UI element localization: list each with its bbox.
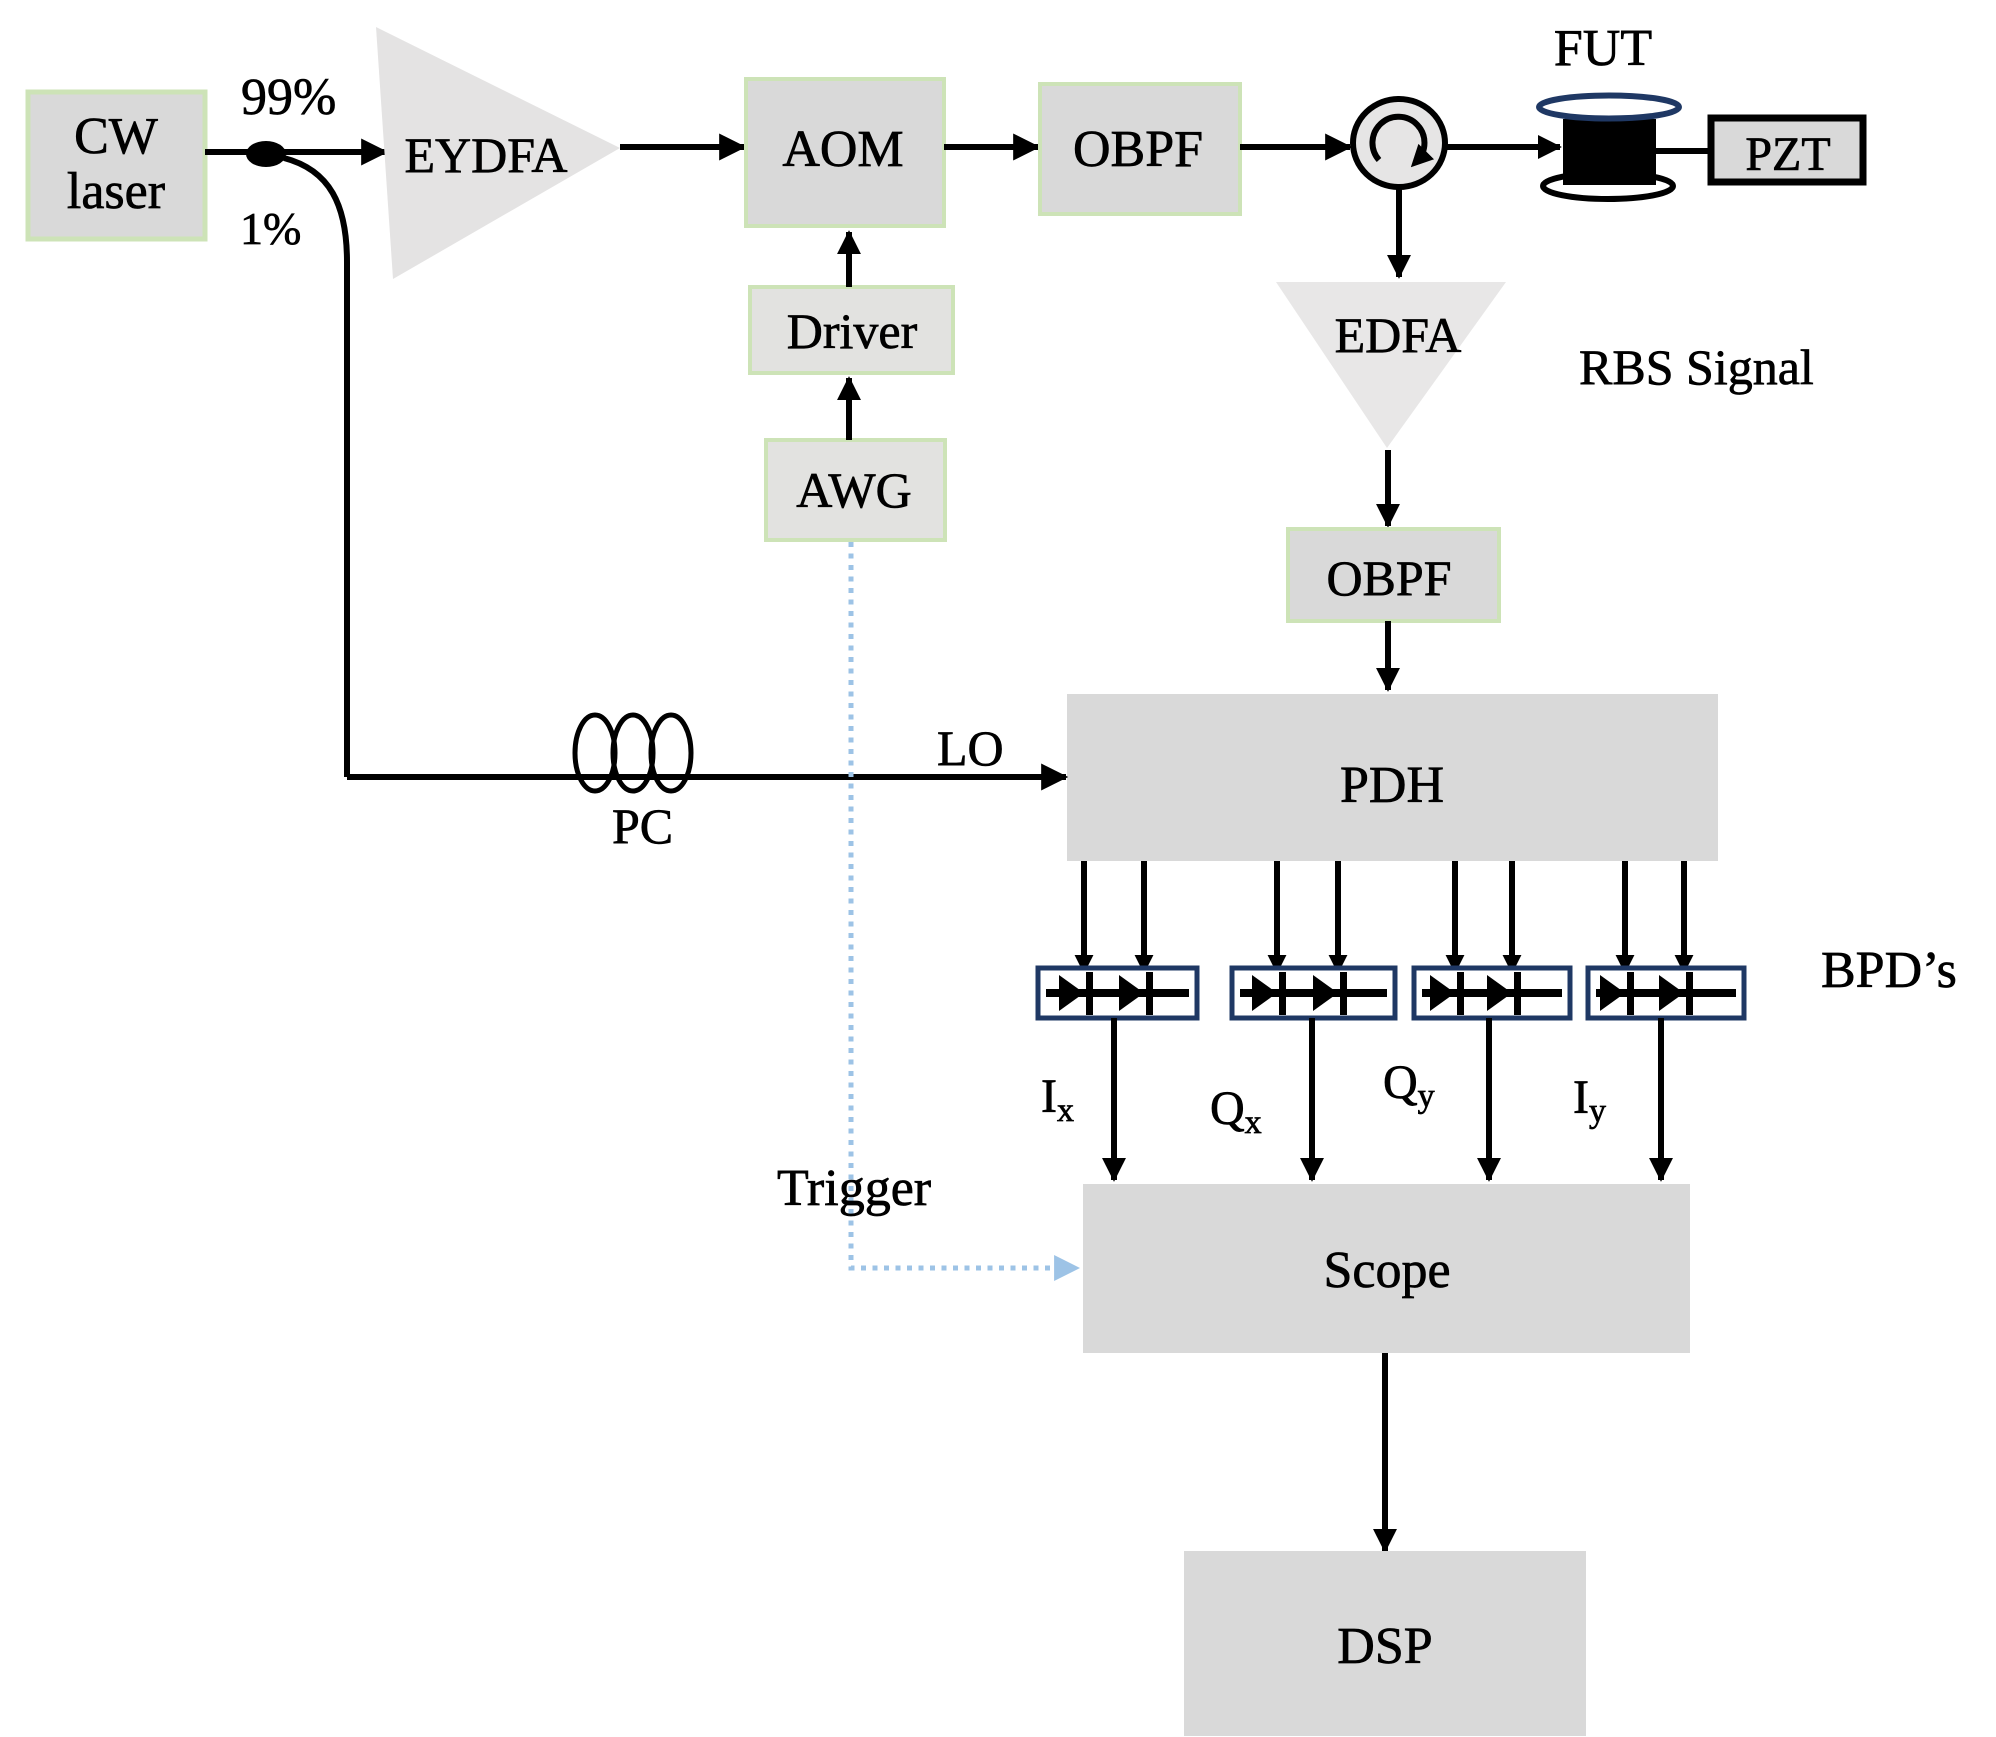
BPD 3 [1414,968,1570,1018]
polarization controller PC coils [575,715,691,791]
svg-text:DSP: DSP [1337,1618,1432,1675]
BPD 1 [1038,968,1197,1018]
wires PDH to BPD 2 [1274,861,1280,972]
svg-text:BPD’s: BPD’s [1821,942,1957,999]
svg-text:Driver: Driver [787,303,918,359]
Scope box [1083,1184,1690,1353]
EYDFA amplifier triangle [376,27,620,279]
coupler [246,141,286,167]
wire Driver to AOM [846,232,852,287]
circulator [1353,99,1445,187]
svg-text:PC: PC [612,798,673,854]
wire LO line from tap to PDH [347,774,1066,780]
svg-text:Trigger: Trigger [777,1160,931,1217]
svg-text:LO: LO [937,720,1004,776]
BPD 4 [1588,968,1744,1018]
DSP box [1184,1551,1586,1736]
svg-text:Scope: Scope [1323,1242,1450,1299]
wire BPD 1 to Scope [1111,1018,1117,1180]
wire BPD 2 to Scope [1309,1018,1315,1180]
svg-text:99%: 99% [241,69,336,126]
svg-text:OBPF: OBPF [1073,121,1203,178]
svg-text:AOM: AOM [782,121,903,178]
CW laser box [28,92,205,239]
svg-text:RBS Signal: RBS Signal [1579,339,1814,395]
wire EDFA to OBPF 2 [1385,450,1391,526]
wires PDH to BPD 3 [1452,861,1458,972]
PDH box [1067,694,1718,861]
wire circulator down to EDFA [1396,187,1402,277]
svg-text:FUT: FUT [1554,20,1652,77]
wire OBPF to circulator [1240,144,1350,150]
wire BPD 3 to Scope [1486,1018,1492,1180]
OBPF box 2 [1288,529,1499,621]
wires PDH to BPD 4 [1622,861,1628,972]
svg-text:laser: laser [67,163,165,220]
AWG box [766,440,945,540]
wire AOM to OBPF [944,144,1038,150]
OBPF box 1 [1040,84,1240,214]
wires PDH to BPD 1 [1081,861,1087,972]
wire circulator to FUT [1445,144,1560,150]
svg-text:PZT: PZT [1745,128,1830,181]
wire EYDFA to AOM [620,144,744,150]
wire BPD 4 to Scope [1658,1018,1664,1180]
svg-text:EDFA: EDFA [1335,307,1462,363]
svg-text:CW: CW [74,108,158,165]
PZT box [1711,118,1863,182]
wire Scope to DSP [1382,1353,1388,1551]
svg-text:EYDFA: EYDFA [405,127,568,183]
Driver box [750,287,953,373]
wire 1% tap curve down to LO line [284,158,347,777]
svg-text:AWG: AWG [796,462,911,518]
AOM box [746,79,944,226]
wire OBPF 2 to PDH [1385,621,1391,690]
svg-text:1%: 1% [240,203,301,254]
wire FUT to PZT [1656,148,1708,154]
wire AWG to Driver [846,378,852,440]
FUT fiber spool [1539,96,1679,200]
EDFA amplifier triangle [1276,282,1506,448]
BPD 2 [1232,968,1395,1018]
trigger dotted wire AWG to Scope [851,542,1078,1268]
svg-text:OBPF: OBPF [1326,550,1451,606]
wire CW laser to EYDFA [205,149,386,155]
svg-text:PDH: PDH [1340,757,1444,814]
